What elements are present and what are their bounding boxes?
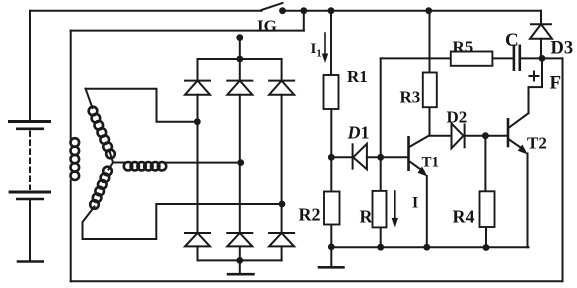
svg-text:R1: R1 [347, 67, 368, 86]
svg-text:T2: T2 [527, 134, 547, 153]
svg-text:R2: R2 [299, 205, 321, 225]
svg-text:D3: D3 [551, 39, 574, 59]
svg-text:D1: D1 [347, 123, 370, 143]
svg-text:IG: IG [257, 17, 277, 36]
svg-text:C: C [505, 30, 519, 51]
svg-text:T1: T1 [422, 155, 440, 171]
svg-text:R3: R3 [400, 88, 421, 107]
svg-text:R5: R5 [453, 38, 474, 57]
svg-text:D2: D2 [447, 108, 468, 127]
svg-text:I: I [412, 195, 418, 212]
svg-text:R: R [360, 207, 374, 227]
svg-text:R4: R4 [453, 207, 475, 227]
svg-text:F: F [550, 73, 562, 94]
